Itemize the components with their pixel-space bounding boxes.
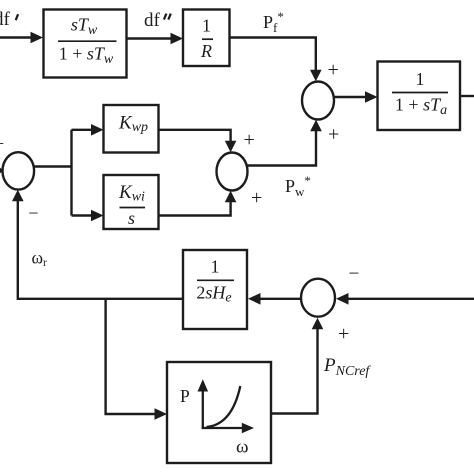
svg-text:Kwi: Kwi [118,182,145,205]
svg-text:−: − [349,264,360,285]
svg-text:−: − [0,134,4,154]
node df'' label [144,10,171,31]
svg-text:P: P [180,386,190,406]
wire S3 to S1 (Pw*) [248,120,322,166]
svg-text:1: 1 [416,69,425,89]
svg-text:Kwp: Kwp [118,113,148,136]
node plus sign S3 bottom [251,187,262,209]
node minus sign left edge near S2 [0,134,4,154]
svg-text:Pf*: Pf* [263,9,284,35]
wire Kwp to summer S3 [159,130,237,153]
node minus sign S4 right [349,264,360,285]
svg-text:1 + sTa: 1 + sTa [395,95,447,119]
svg-text:+: + [244,129,255,151]
svg-text:R: R [200,41,212,61]
node plus sign S3 top [244,129,255,151]
node plus sign at S1 top [328,59,339,81]
wire S1 to block 1/(1+sTa) [334,91,378,103]
wire Kwi/s to summer S3 [159,191,237,216]
summer S2 [2,152,34,189]
node df' label [0,9,18,30]
svg-text:ω: ω [236,437,249,458]
svg-text:−: − [28,203,38,223]
svg-text:PNCref: PNCref [323,355,371,379]
svg-text:+: + [338,323,349,345]
node Pf* label [263,9,284,35]
block 1/(1+sTa) [378,62,461,131]
svg-text:1: 1 [202,16,211,36]
svg-text:Pw*: Pw* [285,173,311,199]
block sTw/(1+sTw) [44,10,127,78]
svg-text:2sHe: 2sHe [196,282,231,305]
node plus sign S4 bottom [338,323,349,345]
node Pw* label [285,173,311,199]
wire feedback into S2 bottom (omega r) [12,190,183,299]
block P-omega curve [167,362,271,463]
node plus sign S1 bottom [328,124,339,146]
svg-text:s: s [128,208,135,228]
node P NCref label [323,355,371,379]
svg-text:ωr: ωr [32,248,48,270]
block 1/R [183,10,230,67]
wire S4 to 1/(2sHe) [248,293,301,305]
wire right edge into S4 [336,293,474,305]
wire branch from omega r line down into graph block [106,299,167,420]
wire S2 output split to Kwp and Kwi/s [34,124,103,221]
svg-text:+: + [328,59,339,81]
wire input arrow into S2 from left [0,165,4,176]
svg-text:+: + [328,124,339,146]
svg-text:sTw: sTw [71,15,98,39]
svg-text:1 + sTw: 1 + sTw [59,44,114,68]
summer S3 [217,153,248,191]
summer S1 [302,82,334,120]
summer S4 [301,279,335,317]
block 1/(2sHe) [183,250,247,329]
svg-text:1: 1 [211,257,220,277]
svg-text:df: df [0,9,11,30]
wire B1 to 1/R [127,33,184,45]
wire 1/R to summer S1 [230,38,322,82]
block Kwp [104,105,159,153]
node omega r label [32,248,48,270]
wire graph block to S4 (P NCref) [271,318,323,414]
svg-text:+: + [251,187,262,209]
svg-text:df: df [144,10,161,31]
wire df' input [0,32,43,44]
block Kwi/s [104,175,159,229]
node minus sign below S2 [28,203,38,223]
wire B3 output to right edge [460,95,474,97]
